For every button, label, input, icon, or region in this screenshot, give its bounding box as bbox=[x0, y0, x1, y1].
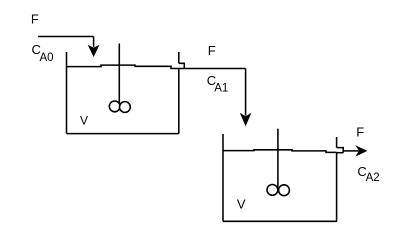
tank 2 liquid surface bbox=[223, 150, 337, 153]
wire product stream out bbox=[343, 150, 358, 152]
tank 2 left wall bbox=[222, 134, 224, 221]
arrowhead feed-1 down bbox=[88, 45, 100, 57]
wire pipe drop into tank 2 bbox=[245, 69, 247, 116]
svg-text:V: V bbox=[80, 114, 88, 128]
wire pipe tank1 to tank2 horizontal bbox=[184, 68, 245, 70]
tank 1 right wall stub above outlet bbox=[178, 52, 180, 63]
svg-text:A0: A0 bbox=[40, 52, 54, 64]
impeller circle left tank 1 bbox=[109, 101, 120, 112]
wire feed-1 horizontal bbox=[38, 36, 94, 38]
tank 1 left wall bbox=[66, 52, 68, 134]
tank 2 outlet box bottom bbox=[337, 152, 344, 154]
impeller circle left tank 2 bbox=[267, 185, 278, 196]
tank 2 bottom bbox=[223, 220, 337, 222]
tank 1 outlet step bbox=[179, 63, 185, 68]
arrowhead into tank 2 down bbox=[240, 113, 252, 127]
tank 1 right wall bbox=[178, 69, 180, 133]
tank 2 outlet step bbox=[337, 148, 344, 153]
impeller circle right tank 1 bbox=[120, 102, 131, 113]
tank 1 liquid surface bbox=[67, 65, 185, 68]
tank 1 bottom bbox=[67, 133, 179, 135]
stirrer shaft tank 1 bbox=[118, 44, 120, 105]
svg-text:V: V bbox=[237, 197, 246, 212]
svg-text:F: F bbox=[208, 43, 216, 58]
svg-text:A1: A1 bbox=[214, 83, 228, 95]
wire feed-1 vertical drop bbox=[93, 37, 95, 48]
svg-text:F: F bbox=[356, 125, 364, 140]
arrowhead product right bbox=[355, 145, 367, 156]
stirrer shaft tank 2 bbox=[277, 129, 279, 188]
tank 2 right wall stub above outlet bbox=[336, 137, 338, 148]
tank 2 right wall bbox=[336, 153, 338, 222]
svg-text:F: F bbox=[31, 12, 39, 27]
impeller circle right tank 2 bbox=[279, 185, 290, 196]
svg-text:A2: A2 bbox=[366, 172, 380, 184]
